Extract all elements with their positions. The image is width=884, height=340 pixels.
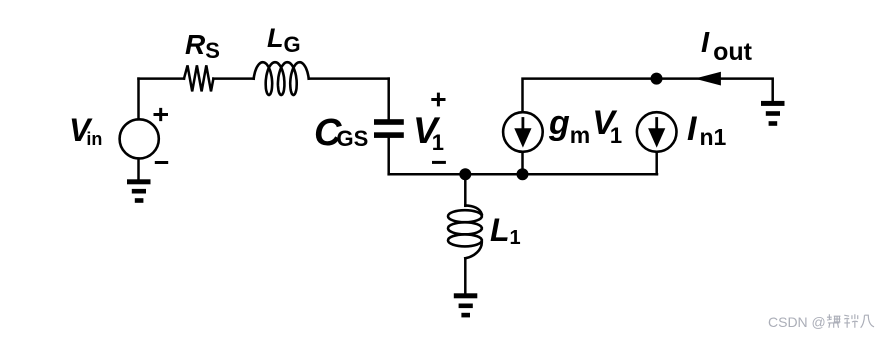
wire Vin to ground [137,159,140,180]
arrow inside g_m source [514,119,531,148]
wire resistor to inductor LG [213,77,253,80]
node at In1 top [651,73,663,85]
node at gm source bottom [517,168,529,180]
label L_G [267,25,301,56]
wire top-left from Vin to resistor [139,77,185,80]
current source I_n1 [637,112,677,152]
label I_n1 [687,112,726,149]
plus sign of V_in [154,108,169,121]
label I_out [701,29,752,65]
label V_in [69,114,102,148]
label g_m V_1 [549,106,622,147]
minus sign of V_in [155,161,168,164]
wire L1 bottom lead [464,258,467,293]
wire In1 source bottom lead [655,152,658,175]
watermark [768,311,876,329]
wire gm source bottom lead [521,152,524,175]
voltage source V_in [120,119,159,158]
label L_1 [490,214,521,248]
inductor L_G [254,62,309,95]
label R_S [185,31,220,62]
wire LG to capacitor [309,77,389,80]
ground top-right [761,101,785,126]
arrow inside I_n1 source [648,119,665,148]
wire capacitor bottom lead [387,138,390,174]
label V_1 [413,112,444,154]
wire L1 top lead [464,174,467,206]
ground below V_in [127,179,151,203]
wire Vin vertical riser [137,79,140,120]
current source g_m V_1 [503,112,543,152]
arrow of I_out on top-right wire [695,72,721,86]
wire bottom rail [389,173,657,176]
ground below L_1 [454,293,478,317]
wire top-right rail [523,79,773,113]
inductor L_1 [448,205,482,258]
wire capacitor top lead [387,79,390,120]
node at L1 top [459,168,471,180]
plus sign of V_1 [431,93,445,107]
label C_GS [314,114,368,152]
minus sign of V_1 [432,161,446,164]
capacitor C_GS [374,119,404,138]
resistor R_S [184,65,213,91]
